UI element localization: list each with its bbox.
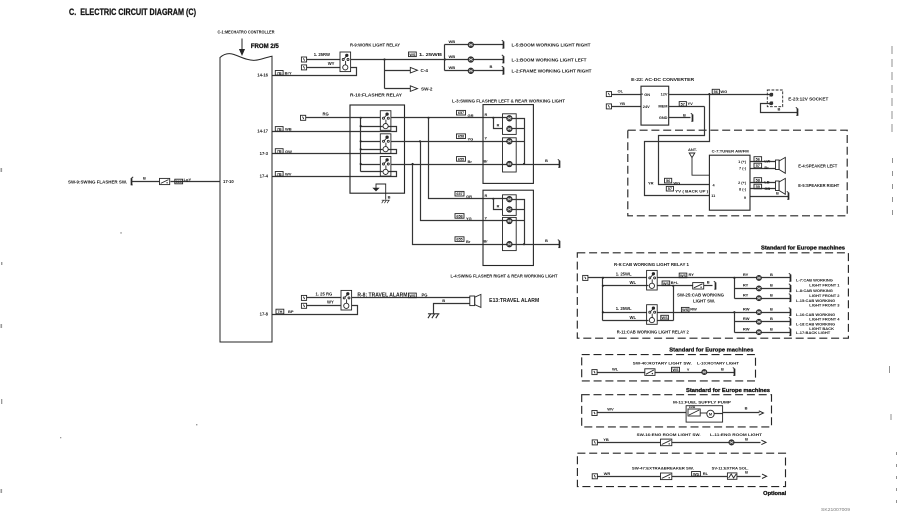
svg-text:L-3:SWING FLASHER LEFT & REAR: L-3:SWING FLASHER LEFT & REAR WORKING LI…: [452, 99, 565, 104]
wire 1.25RW to R-9 switch: [307, 59, 341, 61]
wire GR unit1 out to L-3 R: [391, 117, 507, 119]
svg-text:1. 25RW: 1. 25RW: [314, 52, 330, 57]
connector WS on RL: [692, 472, 701, 477]
svg-text:B: B: [770, 307, 773, 312]
svg-text:Standard for Europe machines: Standard for Europe machines: [669, 348, 753, 354]
svg-text:SW-25:CAB WORKING: SW-25:CAB WORKING: [677, 292, 724, 297]
lamp L-3 rear working 2: [507, 161, 512, 166]
relay R-8: [341, 290, 352, 310]
wire L-3 lamp3 return: [513, 141, 525, 143]
svg-text:E13:TRAVEL ALARM: E13:TRAVEL ALARM: [489, 298, 539, 304]
svg-text:OL: OL: [618, 89, 624, 94]
wire WL to SW-40: [598, 372, 645, 374]
svg-text:WB: WB: [449, 54, 456, 59]
svg-text:7B: 7B: [277, 150, 282, 154]
svg-text:WS: WS: [663, 282, 670, 286]
wire PG R-8 output to travel alarm: [352, 297, 470, 299]
svg-text:B: B: [770, 272, 773, 277]
wire BrY pin 14-16 to R-9 coil: [273, 68, 357, 76]
svg-text:E-5:SPEAKER RIGHT: E-5:SPEAKER RIGHT: [798, 183, 839, 188]
svg-text:L-5:BOOM WORKING LIGHT RIGHT: L-5:BOOM WORKING LIGHT RIGHT: [512, 43, 591, 48]
terminal B L-4: [558, 240, 561, 248]
svg-text:WL: WL: [630, 280, 637, 285]
wire lamp row 2 to terminal: [762, 288, 791, 290]
svg-text:9: 9: [744, 196, 746, 200]
svg-text:B: B: [770, 293, 773, 298]
svg-text:L-11:ENG ROOM LIGHT: L-11:ENG ROOM LIGHT: [710, 432, 763, 437]
wire LB tuner pin2 to speaker right: [751, 182, 776, 184]
wire GW pin 17-3 to R-10 coil 2: [273, 150, 397, 154]
wire relay2 coil link: [658, 320, 674, 322]
lamp L-10: [702, 370, 707, 375]
connector WS on 1.25WB: [409, 52, 417, 57]
connector 7B (17-3): [275, 149, 283, 154]
wire number on Br: [754, 163, 762, 168]
junction R branch L-4: [492, 198, 494, 200]
svg-text:YB: YB: [620, 101, 626, 106]
svg-text:RY: RY: [689, 272, 695, 277]
svg-text:R: R: [497, 124, 500, 128]
wire WL to relay2 coil: [603, 320, 649, 322]
svg-text:WV: WV: [285, 172, 292, 177]
lamp pair housing L-4 top: [503, 195, 517, 216]
svg-text:YR: YR: [648, 181, 654, 186]
svg-text:R: R: [485, 194, 488, 198]
lamp L-3 flasher lower: [507, 126, 512, 131]
dashed enclosure Europe cab lights: [577, 253, 848, 338]
wire internal common vertical: [360, 118, 362, 172]
svg-text:R-9:WORK LIGHT RELAY: R-9:WORK LIGHT RELAY: [350, 43, 400, 48]
terminal L-1: [502, 55, 505, 63]
fuse symbol in pump: [688, 409, 700, 416]
wire number on LB: [754, 178, 762, 183]
connector pin 2 of R-8: [301, 303, 306, 308]
wire SW-9 to switch: [132, 181, 160, 183]
svg-text:2 (+): 2 (+): [738, 181, 747, 185]
wire lamp branch vertical: [444, 45, 446, 71]
svg-text:1. 25WL: 1. 25WL: [616, 306, 632, 311]
svg-text:LgY: LgY: [184, 177, 192, 182]
connector pin extra: [592, 474, 597, 479]
svg-text:B: B: [388, 194, 391, 199]
connector 7B (14-17): [275, 127, 283, 132]
arrow pump return: [759, 411, 764, 415]
svg-text:658: 658: [458, 135, 464, 139]
wire L-5 to terminal: [474, 44, 504, 46]
wire cab feed vertical: [602, 278, 604, 321]
svg-text:7H: 7H: [277, 310, 282, 314]
svg-text:B: B: [707, 279, 710, 284]
svg-text:WG: WG: [673, 180, 680, 185]
terminal row 4: [789, 308, 792, 316]
svg-text:SW-2: SW-2: [421, 86, 433, 91]
relay R-11 cab working light relay 2: [647, 305, 658, 325]
svg-text:Br: Br: [484, 240, 489, 244]
wire RL SW-47 to solenoid: [672, 476, 728, 478]
junction coil wires: [672, 285, 674, 287]
wire LW tuner pin1 to speaker left: [751, 161, 776, 163]
wire Y to rotary lamp: [655, 372, 702, 374]
wire RY to lamp row 1: [735, 277, 757, 279]
relay unit 2 of R-10: [380, 134, 391, 154]
wire YG branch to L-4 Y: [421, 142, 507, 221]
svg-text:655: 655: [458, 157, 464, 161]
terminal row 3: [789, 294, 792, 302]
wire RY to lamp row 3: [735, 298, 757, 300]
svg-text:E-23:12V SOCKET: E-23:12V SOCKET: [788, 96, 828, 101]
wire to unit2 coil left: [361, 149, 383, 151]
svg-text:17-4: 17-4: [260, 174, 269, 179]
lamp L-5: [468, 42, 473, 47]
svg-text:657: 657: [456, 192, 462, 196]
wire number 658 (YG): [457, 134, 466, 139]
svg-text:YG: YG: [466, 216, 472, 221]
svg-text:RW: RW: [743, 307, 750, 312]
svg-text:GR: GR: [468, 113, 474, 118]
wire B pump output: [723, 412, 760, 414]
wire YB to 24V: [612, 106, 641, 108]
wire GR branch to L-4 R: [429, 118, 507, 199]
wire B out of L-3: [513, 164, 560, 166]
svg-text:M: M: [709, 412, 712, 416]
wire cab lamp branch vertical 2: [734, 313, 736, 333]
connector WS on relay2 coil: [661, 315, 669, 320]
svg-text:WY: WY: [327, 299, 334, 304]
svg-text:BP: BP: [288, 309, 294, 314]
lamp L-3 flasher upper: [507, 116, 512, 121]
wire WY to R-8 coil: [307, 305, 341, 307]
lamp L-4 flasher lower: [507, 207, 512, 212]
tuner C-7 box: [709, 155, 750, 210]
connector pin fuel pump: [592, 411, 597, 416]
travel alarm E13 horn symbol: [470, 294, 481, 307]
ground E13: [428, 314, 440, 318]
svg-text:B: B: [776, 190, 779, 195]
wire coil link vertical: [673, 286, 675, 321]
svg-text:59: 59: [756, 185, 760, 189]
svg-text:560: 560: [176, 180, 182, 184]
switch SW-16: [661, 439, 672, 446]
wire rotary lamp to terminal: [707, 372, 735, 374]
connector pin OL: [606, 92, 611, 97]
terminal B SW-25: [714, 281, 717, 289]
wire L-3 lamp2 return: [513, 128, 525, 130]
svg-text:1. 25 RG: 1. 25 RG: [316, 291, 333, 296]
connector WS on RW: [681, 307, 689, 312]
lamp L-15: [756, 296, 761, 301]
lamp housing L-3 bottom: [503, 138, 517, 172]
svg-text:GN: GN: [644, 92, 650, 97]
svg-text:Standard for Europe machines: Standard for Europe machines: [686, 388, 770, 394]
wire WV to pump: [598, 412, 687, 414]
wire stub to C-4: [385, 70, 411, 72]
wire RW to lamp row 6: [735, 332, 757, 334]
svg-text:SW-16:ENG ROOM LIGHT SW.: SW-16:ENG ROOM LIGHT SW.: [637, 432, 701, 437]
svg-text:YV: YV: [688, 101, 694, 106]
svg-text:WV: WV: [607, 406, 614, 411]
svg-text:14-17: 14-17: [257, 129, 268, 134]
speaker E-4 symbol: [776, 157, 786, 173]
junction 12V to tuner backup: [708, 93, 710, 95]
svg-text:WB: WB: [449, 65, 456, 70]
junction L-3 return: [523, 163, 525, 165]
lamp L-8: [756, 286, 761, 291]
svg-text:RW: RW: [690, 306, 697, 311]
wire RW relay2 output: [658, 312, 735, 314]
svg-text:Br: Br: [484, 159, 489, 163]
wire WR to SW-47: [598, 476, 661, 478]
wire motor to box edge: [715, 413, 723, 415]
svg-text:C-7:TUNER AM/FM: C-7:TUNER AM/FM: [712, 149, 750, 154]
wire RW to lamp row 5: [735, 321, 757, 323]
wire B tuner pin9: [751, 196, 789, 198]
svg-text:56: 56: [756, 158, 760, 162]
svg-text:WS: WS: [662, 316, 669, 320]
wire RW to lamp row 4: [735, 312, 757, 314]
terminal row 6: [789, 328, 792, 336]
wire WB pin 14-17 to R-10 coil 1: [273, 127, 397, 132]
svg-text:11: 11: [711, 194, 715, 198]
lamp L-4 rear working 2: [507, 242, 512, 247]
svg-text:WR: WR: [604, 471, 611, 476]
dashed enclosure audio system: [628, 130, 847, 216]
svg-text:57: 57: [756, 164, 760, 168]
svg-text:RW: RW: [743, 327, 750, 332]
svg-text:17-10: 17-10: [223, 179, 234, 184]
svg-text:WS: WS: [409, 294, 416, 298]
switch SW-25: [693, 283, 704, 289]
connector pin eng room light: [592, 440, 597, 445]
svg-text:LW: LW: [764, 159, 770, 164]
svg-text:657: 657: [458, 111, 464, 115]
converter E-22 box: [641, 86, 669, 125]
motor M symbol: [700, 410, 714, 417]
svg-text:B: B: [770, 316, 773, 321]
connector pin YB: [606, 104, 611, 109]
svg-text:B: B: [778, 107, 781, 112]
svg-text:WL: WL: [630, 315, 637, 320]
connector 7H (17-8): [276, 309, 284, 314]
connector WS on Y: [672, 367, 680, 372]
wire to unit3 coil left: [361, 171, 383, 173]
lamp L-17: [756, 330, 761, 335]
wire WB to L-1: [445, 59, 469, 61]
lamp housing L-4 bottom: [503, 217, 517, 250]
wire number 560: [175, 179, 183, 184]
svg-text:SW-47:EXTRA&BREAKER SW.: SW-47:EXTRA&BREAKER SW.: [632, 465, 694, 470]
junction Br branch: [412, 163, 414, 165]
dashed enclosure rotary light: [582, 355, 756, 381]
svg-text:YB: YB: [603, 437, 609, 442]
wire B horn to ground: [434, 304, 470, 314]
svg-text:B: B: [745, 437, 748, 442]
connector pin 1 of R-8: [301, 295, 306, 300]
dashed enclosure fuel pump: [582, 395, 772, 427]
terminal row 2: [789, 284, 792, 292]
arrow to C-4: [410, 67, 417, 73]
svg-text:BrY: BrY: [285, 71, 292, 76]
terminal tick GN: [641, 93, 643, 95]
wire B socket return: [761, 104, 798, 113]
connector 56 on tuner pin4 wire: [665, 178, 672, 183]
arrow FROM 2/5 into controller: [240, 39, 245, 55]
svg-text:WS: WS: [672, 368, 679, 372]
antenna symbol: [689, 153, 709, 175]
svg-text:8 (-): 8 (-): [739, 188, 747, 192]
wire number on GB: [754, 184, 762, 189]
terminal L-5: [502, 40, 505, 48]
svg-text:Br: Br: [466, 239, 471, 244]
relay unit 1 of R-10: [380, 111, 391, 131]
junction at C-4/SW-2 branch: [383, 58, 385, 60]
wire RG to R-10 unit1 switch: [306, 117, 381, 119]
svg-text:L-4:SWING FLASHER RIGHT & REAR: L-4:SWING FLASHER RIGHT & REAR WORKING L…: [451, 274, 558, 279]
svg-text:E-22: AC-DC CONVERTER: E-22: AC-DC CONVERTER: [631, 77, 695, 82]
terminal rotary: [733, 368, 736, 376]
svg-text:7B: 7B: [277, 127, 282, 131]
lamp L-7: [756, 275, 761, 280]
connector 57 on tuner pin11 wire: [666, 186, 673, 191]
svg-text:1. 25WL: 1. 25WL: [616, 271, 632, 276]
svg-text:RL: RL: [703, 471, 709, 476]
svg-text:7 (-): 7 (-): [739, 167, 747, 171]
connector WS on PG: [409, 293, 417, 298]
wire Br tuner pin7 to speaker left: [751, 168, 776, 170]
connector pin rotary: [592, 370, 597, 375]
svg-text:Br: Br: [764, 165, 769, 170]
lamp L-4 rear working: [507, 218, 512, 223]
svg-text:GND: GND: [659, 115, 668, 120]
lamp unit L-3 box: [483, 105, 533, 184]
lamp L-11: [729, 440, 734, 445]
svg-text:RW: RW: [743, 316, 750, 321]
wire WY to R-9 coil: [307, 67, 341, 69]
svg-text:57: 57: [681, 102, 685, 106]
wire YV route to tuner pin 4: [659, 107, 710, 185]
wire L-11 to return: [735, 442, 761, 444]
wire Br branch to L-4 Br: [413, 165, 507, 245]
svg-text:MEM: MEM: [658, 104, 667, 109]
wire relay1 coil to SW-25: [658, 285, 693, 287]
wire L-4 lamp2 return: [513, 209, 525, 211]
wire L-1 to terminal: [474, 59, 504, 61]
connector WS on RY: [679, 273, 687, 278]
svg-text:SV-11:EXTRA SOL.: SV-11:EXTRA SOL.: [712, 465, 749, 470]
junction cab feed: [602, 277, 604, 279]
svg-text:GR: GR: [466, 194, 472, 199]
junction YG branch: [419, 140, 421, 142]
svg-text:GW: GW: [285, 149, 292, 154]
wire 1.25RG to R-8 switch: [307, 297, 341, 299]
switch SW-40: [645, 369, 655, 376]
svg-text:RY: RY: [743, 293, 749, 298]
svg-text:C. ELECTRIC CIRCUIT DIAGRAM (: C. ELECTRIC CIRCUIT DIAGRAM (C): [69, 7, 196, 17]
socket contact 1: [769, 93, 773, 97]
svg-text:WY: WY: [328, 61, 335, 66]
svg-text:B: B: [745, 470, 748, 475]
svg-text:Br: Br: [468, 159, 473, 164]
wire RY relay1 output: [658, 277, 735, 279]
connector pin 1 of R-9: [301, 57, 306, 62]
svg-text:LB: LB: [764, 180, 769, 185]
fuel pump M-11 unit box: [686, 406, 723, 422]
svg-text:WS: WS: [409, 53, 416, 57]
terminal B tuner: [787, 191, 790, 199]
wire LgY switch to pin 17-10: [171, 181, 221, 183]
terminal row 5: [789, 317, 792, 325]
svg-text:B: B: [143, 175, 146, 180]
svg-text:LIGHT FRONT 3: LIGHT FRONT 3: [809, 303, 840, 308]
relay R-10 outer box: [350, 105, 405, 193]
wire B GND output: [669, 117, 691, 119]
wire number 657 (GR): [457, 110, 466, 115]
socket E-23 box: [767, 90, 782, 107]
svg-text:58: 58: [756, 179, 760, 183]
wire WG route to tuner pin 11: [645, 95, 710, 196]
scan artifact vertical line right edge: [890, 46, 897, 505]
svg-text:M-11:FUEL SUPPLY PUMP: M-11:FUEL SUPPLY PUMP: [673, 400, 731, 405]
svg-text:GB: GB: [764, 186, 770, 191]
svg-text:7B: 7B: [277, 71, 282, 75]
svg-text:RY: RY: [743, 283, 749, 288]
terminal B L-3: [558, 159, 561, 167]
wire number 655 (Br L-4): [455, 237, 464, 242]
lamp L-3 rear working: [507, 139, 512, 144]
wire number 657 (GR L-4): [455, 191, 464, 196]
svg-text:LIGHT FRONT 1: LIGHT FRONT 1: [809, 282, 840, 287]
wire Br unit3 out to L-3 Br: [391, 164, 507, 166]
svg-text:B: B: [545, 158, 548, 163]
svg-text:PG: PG: [422, 293, 428, 298]
lamp L-4 flasher upper: [507, 197, 512, 202]
svg-text:B: B: [683, 112, 686, 117]
junction RG internal: [360, 117, 362, 119]
wire YG unit2 out to L-3 Y: [391, 141, 507, 143]
lamp L-18: [756, 319, 761, 324]
wire B out of L-4: [513, 244, 560, 246]
svg-text:R-9:CAB WORKING LIGHT RELAY 1: R-9:CAB WORKING LIGHT RELAY 1: [614, 262, 690, 267]
scan specks left edge: [1, 168, 198, 493]
terminal row 1: [789, 273, 792, 281]
wire branch down to arrows: [384, 60, 386, 89]
svg-text:R-11:CAB WORKING LIGHT RELAY 2: R-11:CAB WORKING LIGHT RELAY 2: [617, 329, 690, 334]
wire L-4 lamp3 return: [513, 220, 525, 222]
wire L-3 lamp returns vertical: [513, 119, 525, 165]
wire BP pin 17-8 to R-8 coil: [273, 306, 358, 315]
svg-text:ANT.: ANT.: [688, 147, 697, 152]
svg-text:L-1:BOOM WORKING LIGHT LEFT: L-1:BOOM WORKING LIGHT LEFT: [512, 57, 587, 62]
wire B solenoid return: [737, 476, 761, 478]
wire L-2 to terminal: [474, 70, 504, 72]
svg-text:R-10:FLASHER RELAY: R-10:FLASHER RELAY: [350, 93, 402, 98]
speaker E-5 symbol: [776, 178, 786, 194]
wire lamp row 6 to terminal: [762, 332, 791, 334]
connector WS on coil wire: [662, 281, 670, 286]
svg-text:WB: WB: [449, 39, 456, 44]
connector 57 on YV: [679, 102, 686, 107]
svg-text:LIGHT SW.: LIGHT SW.: [693, 298, 715, 303]
wire L-4 lamp returns vertical: [513, 200, 525, 245]
svg-text:1 (+): 1 (+): [738, 160, 747, 164]
svg-text:WS: WS: [682, 308, 689, 312]
internal ground triangle R-10: [373, 184, 385, 200]
svg-text:7B: 7B: [277, 172, 282, 176]
svg-text:SK21007009: SK21007009: [821, 507, 851, 511]
svg-text:B: B: [721, 366, 724, 371]
svg-text:14-16: 14-16: [257, 72, 268, 77]
svg-text:FROM 2/5: FROM 2/5: [251, 43, 279, 50]
arrow to SW-2: [410, 86, 417, 92]
